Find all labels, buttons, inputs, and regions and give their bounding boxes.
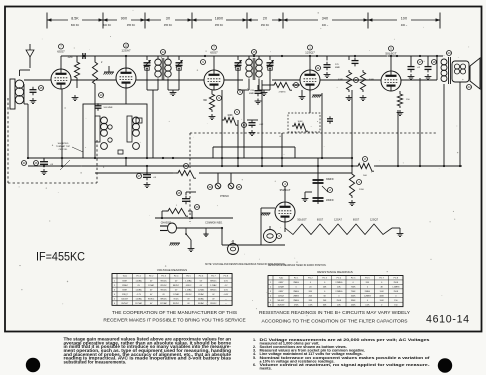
svg-text:OF COIL: OF COIL [59,149,69,151]
svg-text:455 KC: 455 KC [215,24,224,27]
svg-text:50L6GT: 50L6GT [297,218,307,222]
svg-text:117VAC: 117VAC [160,302,168,305]
svg-text:455 KC: 455 KC [164,24,173,27]
svg-text:88VDC: 88VDC [161,298,168,300]
svg-text:400 ~: 400 ~ [322,24,329,27]
svg-text:470K: 470K [294,304,299,306]
svg-text:600 KC: 600 KC [71,24,80,27]
svg-text:11: 11 [317,66,320,70]
svg-text:1.2VAC: 1.2VAC [198,288,205,291]
svg-text:0: 0 [310,282,311,284]
svg-text:SHORTED: SHORTED [58,143,69,145]
svg-text:500K: 500K [369,79,375,81]
svg-text:12VAC: 12VAC [148,284,155,287]
svg-text:150: 150 [394,300,397,302]
svg-text:450 KC: 450 KC [261,24,270,27]
svg-text:15: 15 [252,50,256,54]
svg-text:Pin 3: Pin 3 [322,278,326,280]
svg-text:6: 6 [270,304,271,306]
svg-text:28: 28 [177,191,181,195]
svg-text:substituted for measurements.: substituted for measurements. [64,360,127,365]
svg-text:2MEG: 2MEG [293,295,299,297]
svg-text:0: 0 [367,300,368,302]
svg-text:0: 0 [395,295,396,297]
svg-text:88VDC: 88VDC [210,289,217,291]
svg-text:600 KC: 600 KC [103,24,112,27]
svg-text:0: 0 [296,287,297,289]
svg-text:5: 5 [114,298,115,300]
svg-text:13: 13 [99,93,103,97]
svg-text:0.5V: 0.5V [224,280,229,282]
svg-text:1.2MEG: 1.2MEG [364,295,372,297]
svg-text:PHONO: PHONO [220,195,229,198]
svg-text:Volume control at maximum, no: Volume control at maximum, no signal app… [260,363,431,367]
svg-text:12SQ7: 12SQ7 [278,295,284,297]
svg-text:0: 0 [324,282,325,284]
svg-text:5VDC: 5VDC [173,298,179,300]
svg-text:20MFD: 20MFD [326,200,334,202]
svg-text:23: 23 [447,51,451,55]
svg-text:RESISTANCE READINGS: RESISTANCE READINGS [317,270,352,274]
svg-text:1.5MEG: 1.5MEG [392,287,400,289]
svg-text:95VDC: 95VDC [210,303,217,305]
svg-text:400K: 400K [379,295,384,297]
svg-text:ments.: ments. [260,366,272,370]
svg-text:3.4K: 3.4K [380,300,385,302]
svg-text:6SS7: 6SS7 [122,280,127,282]
svg-text:2MEG: 2MEG [293,291,299,293]
svg-text:34X: 34X [322,16,329,20]
svg-text:117VAC: 117VAC [135,302,143,305]
svg-text:2MEG: 2MEG [293,282,299,284]
svg-text:Pin 5: Pin 5 [351,278,355,280]
svg-text:TURN AT TOP: TURN AT TOP [56,145,71,148]
svg-text:25: 25 [39,86,43,90]
svg-text:Pin 8: Pin 8 [224,276,228,278]
svg-text:500K: 500K [338,79,344,81]
svg-text:2.2MEG: 2.2MEG [335,282,343,284]
svg-text:150: 150 [394,304,397,306]
svg-text:0: 0 [353,282,354,284]
svg-text:Pin 2: Pin 2 [308,278,312,280]
svg-text:-0.6V: -0.6V [224,294,229,296]
svg-text:MMF: MMF [249,93,255,95]
svg-text:Tube: Tube [123,276,127,278]
svg-text:6: 6 [114,303,115,305]
svg-text:12SA7: 12SA7 [334,218,342,222]
svg-text:12: 12 [124,44,128,48]
svg-text:250K: 250K [394,282,399,284]
svg-text:0: 0 [381,304,382,306]
svg-text:95VDC: 95VDC [148,298,155,300]
svg-text:45VDC: 45VDC [185,294,192,296]
svg-text:2.2MEG: 2.2MEG [335,291,343,293]
svg-text:750K: 750K [351,291,356,293]
svg-text:1.2VAC: 1.2VAC [210,284,217,287]
svg-text:16: 16 [354,78,358,82]
svg-text:Pin 7: Pin 7 [379,278,383,280]
svg-text:29: 29 [195,205,199,209]
svg-text:50L6GT: 50L6GT [121,298,129,300]
svg-text:95VDC: 95VDC [161,289,168,291]
svg-text:-1.2V: -1.2V [136,294,141,296]
svg-text:0: 0 [324,291,325,293]
svg-text:17: 17 [418,60,422,64]
svg-text:Pin 6: Pin 6 [199,276,203,278]
svg-text:1: 1 [270,282,271,284]
svg-text:24: 24 [467,85,471,89]
svg-text:50L6GT: 50L6GT [385,52,396,56]
svg-text:VOLTAGE READINGS: VOLTAGE READINGS [157,268,187,272]
svg-text:88VDC: 88VDC [173,285,180,287]
svg-text:MMF: MMF [335,67,341,69]
svg-text:6SS7: 6SS7 [317,218,324,222]
svg-text:22M: 22M [68,56,73,59]
svg-text:Tube: Tube [279,278,283,280]
svg-text:1.2VAC: 1.2VAC [135,297,142,300]
svg-text:1.: 1. [253,338,256,342]
svg-text:50VAC: 50VAC [198,297,205,300]
svg-text:95VDC: 95VDC [173,303,180,305]
svg-text:35VAC: 35VAC [198,302,205,305]
svg-text:RECEIVER MAKES IT POSSIBLE TO: RECEIVER MAKES IT POSSIBLE TO BRING YOU … [103,318,245,324]
svg-text:12SQ7: 12SQ7 [122,294,128,296]
svg-text:-8VDC: -8VDC [186,285,192,287]
svg-text:COMMON NEG.: COMMON NEG. [205,222,223,225]
svg-text:90X: 90X [121,16,128,20]
svg-text:Pin 3: Pin 3 [161,276,165,278]
svg-text:Pin 6: Pin 6 [365,278,369,280]
svg-text:0: 0 [367,287,368,289]
svg-text:5: 5 [270,300,271,302]
svg-text:6SS7: 6SS7 [210,51,218,55]
svg-text:12SQ7: 12SQ7 [370,218,379,222]
svg-text:12SA7: 12SA7 [278,286,284,289]
svg-text:12VAC: 12VAC [198,293,205,296]
svg-text:RESISTANCE READINGS IN THE B+: RESISTANCE READINGS IN THE B+ CIRCUITS M… [259,310,411,316]
svg-text:2: 2 [114,285,115,287]
svg-text:35Z5GT: 35Z5GT [121,303,129,305]
svg-text:455 KC: 455 KC [127,24,136,27]
svg-text:1.2VAC: 1.2VAC [173,293,180,296]
svg-text:250K: 250K [394,291,399,293]
svg-text:1200: 1200 [359,189,365,191]
svg-text:100K: 100K [227,115,233,117]
svg-text:100K: 100K [297,121,303,123]
svg-text:THE COOPERATION OF THE MANUFAC: THE COOPERATION OF THE MANUFACTURER OF T… [112,310,237,316]
svg-text:180X: 180X [215,16,224,20]
svg-text:Pin 7: Pin 7 [211,276,215,278]
svg-text:0: 0 [381,282,382,284]
svg-text:30MFD: 30MFD [326,179,334,181]
svg-text:0: 0 [338,295,339,297]
svg-text:8.5K: 8.5K [71,16,79,20]
svg-text:4610-14: 4610-14 [426,314,470,326]
svg-text:250K: 250K [337,300,342,302]
svg-text:2X: 2X [263,16,268,20]
svg-text:2MEG: 2MEG [293,300,299,302]
svg-text:1.2VAC: 1.2VAC [135,279,142,282]
svg-text:0.5K: 0.5K [308,304,313,306]
svg-text:6SS7: 6SS7 [57,50,65,54]
svg-text:95VDC: 95VDC [161,280,168,282]
svg-text:Pin 1: Pin 1 [294,278,298,280]
svg-text:12SA7: 12SA7 [121,49,131,53]
svg-text:Pin 1: Pin 1 [137,276,141,278]
svg-text:CHASSIS: CHASSIS [161,222,172,225]
svg-text:330K: 330K [351,300,356,302]
svg-text:27: 27 [137,174,141,178]
svg-text:2 MEG: 2 MEG [279,92,286,94]
svg-text:6.: 6. [253,363,256,367]
svg-text:85VDC: 85VDC [161,285,168,287]
svg-text:Pin 2: Pin 2 [149,276,153,278]
svg-text:Pin 8: Pin 8 [394,278,398,280]
svg-text:100 MMF: 100 MMF [103,107,113,109]
svg-text:14: 14 [161,50,165,54]
svg-text:26: 26 [34,161,38,165]
svg-text:88VDC: 88VDC [210,280,217,282]
svg-text:500K: 500K [351,295,356,297]
svg-text:6SS7: 6SS7 [122,289,127,291]
svg-text:30: 30 [22,161,26,165]
svg-text:1.2VAC: 1.2VAC [185,288,192,291]
svg-text:21: 21 [237,185,241,189]
svg-text:750K: 750K [351,287,356,289]
svg-text:RESISTANCE READINGS TAKEN IN R: RESISTANCE READINGS TAKEN IN RADIO POSIT… [268,264,327,267]
svg-text:12SA7: 12SA7 [122,284,128,287]
svg-text:10X: 10X [401,16,408,20]
svg-text:1: 1 [114,280,115,282]
svg-text:35Z5GT: 35Z5GT [277,304,285,306]
svg-text:2: 2 [270,287,271,289]
svg-text:1.2VAC: 1.2VAC [135,288,142,291]
svg-text:5.: 5. [253,356,256,360]
svg-text:6SS7: 6SS7 [353,218,360,222]
svg-text:6SS7: 6SS7 [279,282,284,284]
svg-text:0.5K: 0.5K [365,304,370,306]
svg-text:3.4K: 3.4K [380,291,385,293]
svg-text:IF=455KC: IF=455KC [36,249,85,263]
svg-text:6SS7: 6SS7 [279,291,284,293]
svg-text:2MEG: 2MEG [365,291,371,293]
svg-text:400 ~: 400 ~ [401,24,408,27]
svg-text:250K: 250K [351,304,356,306]
svg-text:20: 20 [208,185,212,189]
svg-text:0.5V: 0.5V [224,289,229,291]
svg-text:3X: 3X [166,16,171,20]
svg-text:3: 3 [114,289,115,291]
svg-text:1.2VAC: 1.2VAC [185,279,192,282]
svg-text:50L6GT: 50L6GT [277,300,285,302]
svg-text:Pin 5: Pin 5 [186,276,190,278]
svg-text:20: 20 [309,287,311,289]
svg-text:ACCORDING TO THE CONDITION OF: ACCORDING TO THE CONDITION OF THE FILTER… [261,319,408,325]
svg-text:10: 10 [242,123,246,127]
svg-text:18: 18 [432,60,436,64]
svg-text:3: 3 [270,291,271,293]
svg-text:12SQ7: 12SQ7 [305,51,315,55]
